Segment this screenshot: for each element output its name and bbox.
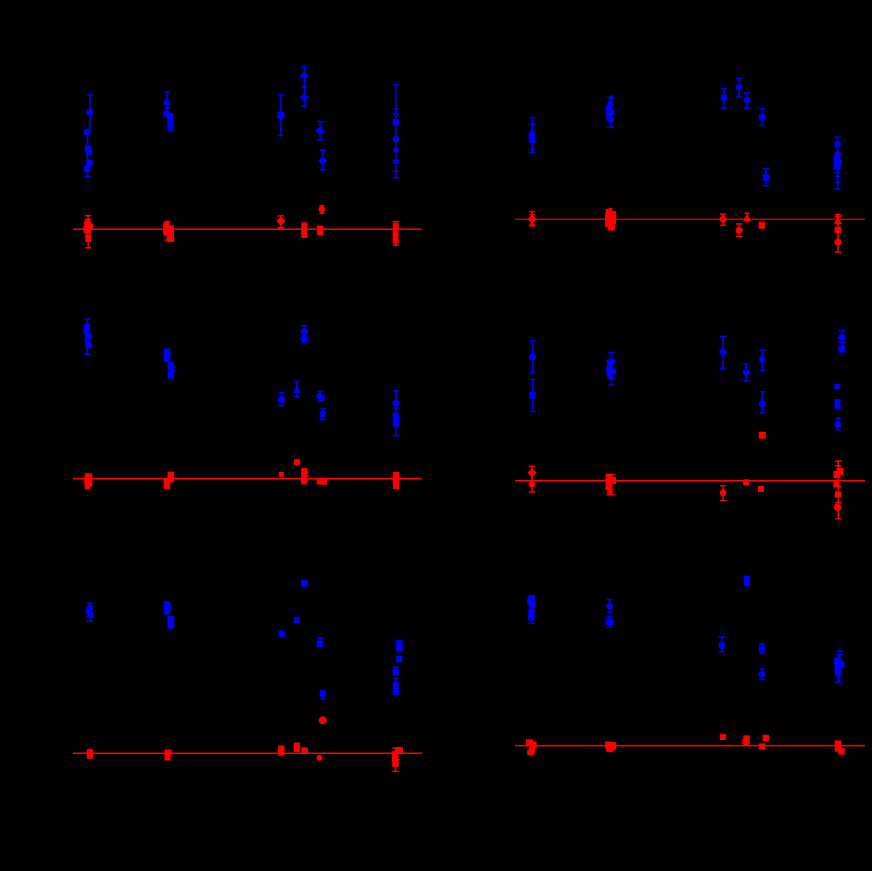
TL red point above line (x=322, y=209) (319, 206, 326, 214)
BL red cluster (x=168) (165, 750, 172, 761)
TL red cluster 6 (x=396) (393, 222, 399, 246)
BR blue cluster 2 (x=610) (606, 600, 613, 628)
TL red cluster 1 (x=88) (84, 216, 94, 248)
ML red cluster 1 (x=88) (84, 473, 92, 489)
ML red cluster 2 (x=169) (164, 472, 174, 490)
BL blue square (x=280) (279, 631, 286, 638)
BR red square above line (x=723) (720, 734, 726, 740)
TR blue cluster 2 (x=610) (606, 95, 616, 127)
BL blue cluster 2 (x=168) (164, 601, 175, 629)
MR blue cluster 4 (x=746) (743, 364, 750, 381)
BL red square (x=304) (301, 747, 308, 754)
TR blue cluster 6 (x=762) (759, 109, 766, 126)
ML red cluster 4 (x=297) (301, 468, 309, 485)
MR blue cluster 3 (x=723) (719, 336, 728, 368)
MR blue cluster 2 (x=610) (606, 353, 617, 385)
ML blue cluster 3 (x=281) (278, 392, 285, 405)
ML blue cluster 8 (x=396) (393, 391, 400, 436)
BR blue cluster 1 (x=531) (527, 595, 535, 623)
ML blue cluster 5 (x=304) (300, 326, 309, 344)
TR red cluster 3 (x=723) (719, 214, 728, 225)
MR blue cluster 6 (x=838) (834, 330, 845, 430)
panel middle-left: red baseline (73, 478, 422, 480)
ML blue cluster 1 (x=88) (84, 319, 92, 354)
TL blue cluster 6 (x=323) (318, 150, 327, 170)
TL blue cluster 4 (x=304) (300, 67, 309, 106)
TR red cluster 7 (x=837) (834, 215, 842, 253)
BL blue cluster lower (x=323) (319, 691, 326, 700)
BR red cluster (x=837) (835, 741, 845, 755)
TL blue cluster 3 (x=281) (277, 95, 284, 136)
TR blue cluster 1 (x=532) (529, 118, 536, 153)
BL red cluster (x=396) (392, 747, 403, 771)
BR red cluster 1 (x=531) (526, 739, 537, 755)
BL blue square isolated top (x=304, y=580) (301, 580, 308, 587)
BL red square on line (x=89) (87, 749, 93, 759)
panel bottom-right: red baseline (515, 745, 865, 747)
panel top-left: red baseline (73, 228, 422, 230)
BR red cluster 2 (x=610) (605, 742, 616, 753)
panel middle-right: red baseline (515, 480, 865, 482)
TL blue cluster 7 (x=396) (392, 84, 399, 177)
ML red cluster 6 (x=396) (393, 472, 400, 489)
MR red square (x=761) (758, 486, 764, 492)
MR red square (x=746) (743, 479, 749, 485)
TR red square (x=762) (759, 222, 766, 229)
BL blue cluster (x=396) (392, 640, 402, 695)
MR red cluster 3 (x=723) (720, 486, 727, 501)
ML blue cluster 4 (x=296) (293, 381, 301, 397)
ML red square above line (x=296) (294, 459, 300, 465)
MR red cluster 2 (x=610) (606, 474, 617, 495)
panel bottom-left: red baseline (73, 752, 422, 754)
TR blue cluster 3 (x=723) (721, 88, 728, 108)
ML blue cluster 2 (x=169) (164, 348, 176, 378)
BL red circle below line (x=317) (317, 755, 323, 761)
TL blue cluster 2 (x=168) (164, 92, 174, 131)
BR blue cluster 5 (x=762) (759, 644, 766, 680)
MR blue cluster 1 (x=532) (529, 340, 536, 411)
BL blue cluster 1 (x=89) (86, 603, 94, 621)
BR red cluster (x=746) (742, 735, 750, 746)
BL red square (x=295) (294, 743, 300, 753)
BL red circle above line (x=323, y=720) (319, 716, 327, 724)
BR red cluster (x=762) (759, 735, 769, 750)
TL blue cluster 1 (x=90) (84, 95, 94, 176)
BL red cluster (x=280) (278, 745, 284, 755)
TR blue cluster 4 (x=738) (736, 78, 743, 97)
BR blue cluster 6 (x=837) (834, 651, 845, 683)
panel top-right: red baseline (515, 218, 865, 220)
ML blue cluster 6 (x=320) (316, 391, 324, 401)
TR blue cluster 7 (x=765, lower) (763, 169, 770, 186)
BL blue square (x=304, y=620) (294, 617, 300, 623)
MR blue cluster 5 (x=762) (759, 350, 766, 413)
BL blue cluster (x=320) (317, 638, 324, 646)
TL red square on line (x=320) (317, 226, 323, 236)
BR blue cluster 3 (x=722) (718, 637, 725, 652)
MR red square high above line (x=762, y=435) (759, 432, 766, 439)
MR red cluster 1 (x=532) (527, 466, 536, 492)
TR red triangle (x=747) (743, 213, 751, 222)
MR red cluster 6 (x=838) (834, 461, 844, 519)
TL red cluster 2 (x=166) (163, 221, 174, 242)
ML blue cluster 7 (x=323, lower) (320, 409, 326, 420)
TR blue cluster 5 (x=747) (744, 93, 751, 108)
TL red cluster 4 (x=304) (301, 223, 308, 238)
TR red cluster 1 (x=532) (528, 212, 537, 226)
TR red cluster 4 (x=738) (736, 224, 743, 237)
TR red cluster 2 (x=610) (605, 208, 616, 231)
TL blue cluster 5 (x=320) (316, 122, 325, 141)
ML red point (x=320) (317, 479, 328, 485)
TL red cluster 3 (x=281) (276, 216, 285, 228)
ML red point (x=281) (279, 472, 284, 477)
TR blue cluster 8 (x=837) (834, 137, 842, 189)
BR blue square isolated top (x=747, y=580) (744, 576, 750, 587)
